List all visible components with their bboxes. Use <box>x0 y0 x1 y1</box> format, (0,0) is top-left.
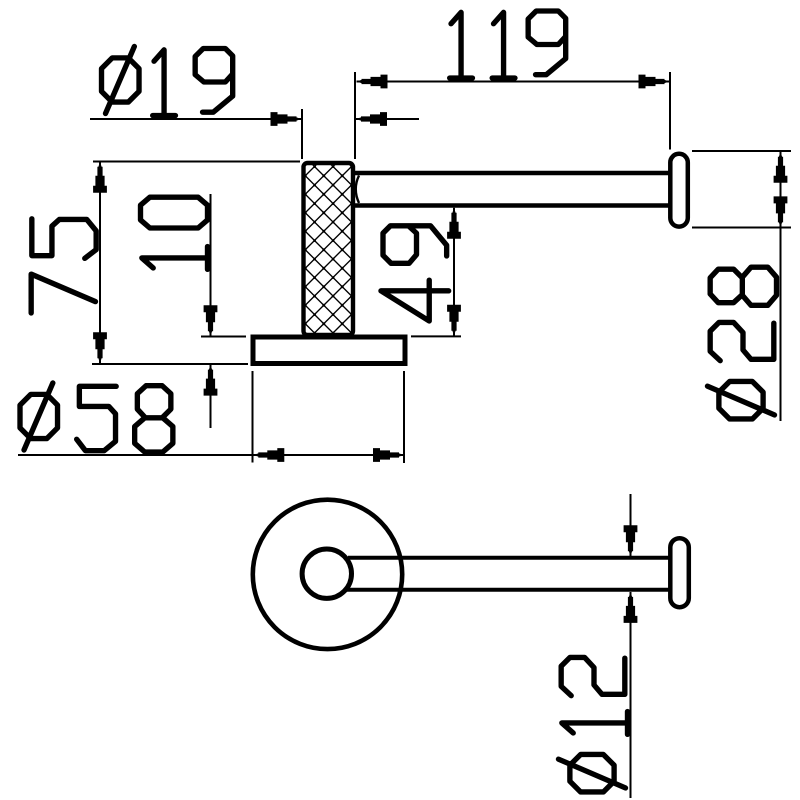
dim O58 left arrowhead <box>253 448 284 462</box>
knurled wall post (top view) <box>304 163 354 335</box>
arm end cap (top view) <box>670 154 688 227</box>
dimension text O58 (diameter 58) <box>20 383 173 452</box>
dim 49 bottom arrowhead <box>447 305 461 336</box>
post circle (bottom view) <box>302 549 351 598</box>
dim O19 extension line left <box>301 109 303 159</box>
dim 75 bottom arrowhead <box>93 332 107 363</box>
dim O58 dimension line with leader under text <box>18 454 404 456</box>
dimension text O28 (diameter 28) (rotated) <box>707 267 776 419</box>
dim 10 top arrowhead <box>204 305 218 336</box>
dimension text 75 (rotated) <box>31 219 96 313</box>
dim 119 left arrowhead <box>357 75 388 89</box>
dimension text 10 (rotated) <box>141 197 208 269</box>
dim O19 dimension line right part <box>356 118 419 120</box>
dim O19 dimension line left part <box>90 118 302 120</box>
dim 10 dimension line lower segment <box>210 365 212 428</box>
dim 49 dimension line <box>453 208 455 336</box>
dimension text 49 (rotated) <box>381 226 449 321</box>
shared extension line (O19 right / 119 left) <box>354 72 356 159</box>
dim O12 top arrowhead <box>624 525 638 556</box>
dimension text O12 (diameter 12) (rotated) <box>558 657 627 792</box>
dim O12 dimension line upper segment <box>630 494 632 556</box>
arm top line (top view) <box>355 171 669 175</box>
dim 49 top arrowhead <box>447 208 461 239</box>
dim 119 dimension line <box>357 81 670 83</box>
dim 10 extension line top <box>201 336 246 338</box>
dim O12 dimension line lower segment with leader <box>630 592 632 798</box>
shared extension line bottom (75 / 10) <box>92 363 248 365</box>
dimension text 119 <box>450 11 566 78</box>
dim O19 right arrowhead <box>356 112 387 126</box>
dim 75 extension line top <box>93 161 300 163</box>
bar top line (bottom view) <box>348 556 669 560</box>
dim 10 bottom arrowhead <box>204 365 218 396</box>
dim 10 dimension line upper segment <box>210 194 212 336</box>
dim O19 left arrowhead <box>271 112 302 126</box>
bar bottom line (bottom view) <box>346 588 669 592</box>
dim O58 right arrowhead <box>373 448 404 462</box>
dim 75 top arrowhead <box>93 162 107 193</box>
fillet arc at arm/post junction <box>356 176 359 204</box>
dim O28 extension line bottom <box>692 227 791 229</box>
bar end cap (bottom view) <box>670 538 689 607</box>
mounting base plate (top view) <box>253 337 405 364</box>
dim O28 extension line top <box>692 150 791 152</box>
dim 75 dimension line <box>99 162 101 363</box>
dim O28 top arrowhead <box>774 152 788 183</box>
dim O12 bottom arrowhead <box>624 592 638 623</box>
dim O28 dimension line with leader down <box>780 152 782 421</box>
arm bottom line (top view) <box>355 203 669 207</box>
dim O58 extension line right <box>403 371 405 463</box>
dim O58 extension line left <box>252 371 254 463</box>
dim 119 extension line right <box>669 72 671 150</box>
dim 119 right arrowhead <box>639 75 670 89</box>
wall flange circle (bottom view) <box>253 500 402 649</box>
dimension text O19 (diameter 19) <box>102 46 233 115</box>
dim O28 bottom arrowhead <box>774 196 788 227</box>
dim 49 extension line bottom <box>411 335 461 337</box>
